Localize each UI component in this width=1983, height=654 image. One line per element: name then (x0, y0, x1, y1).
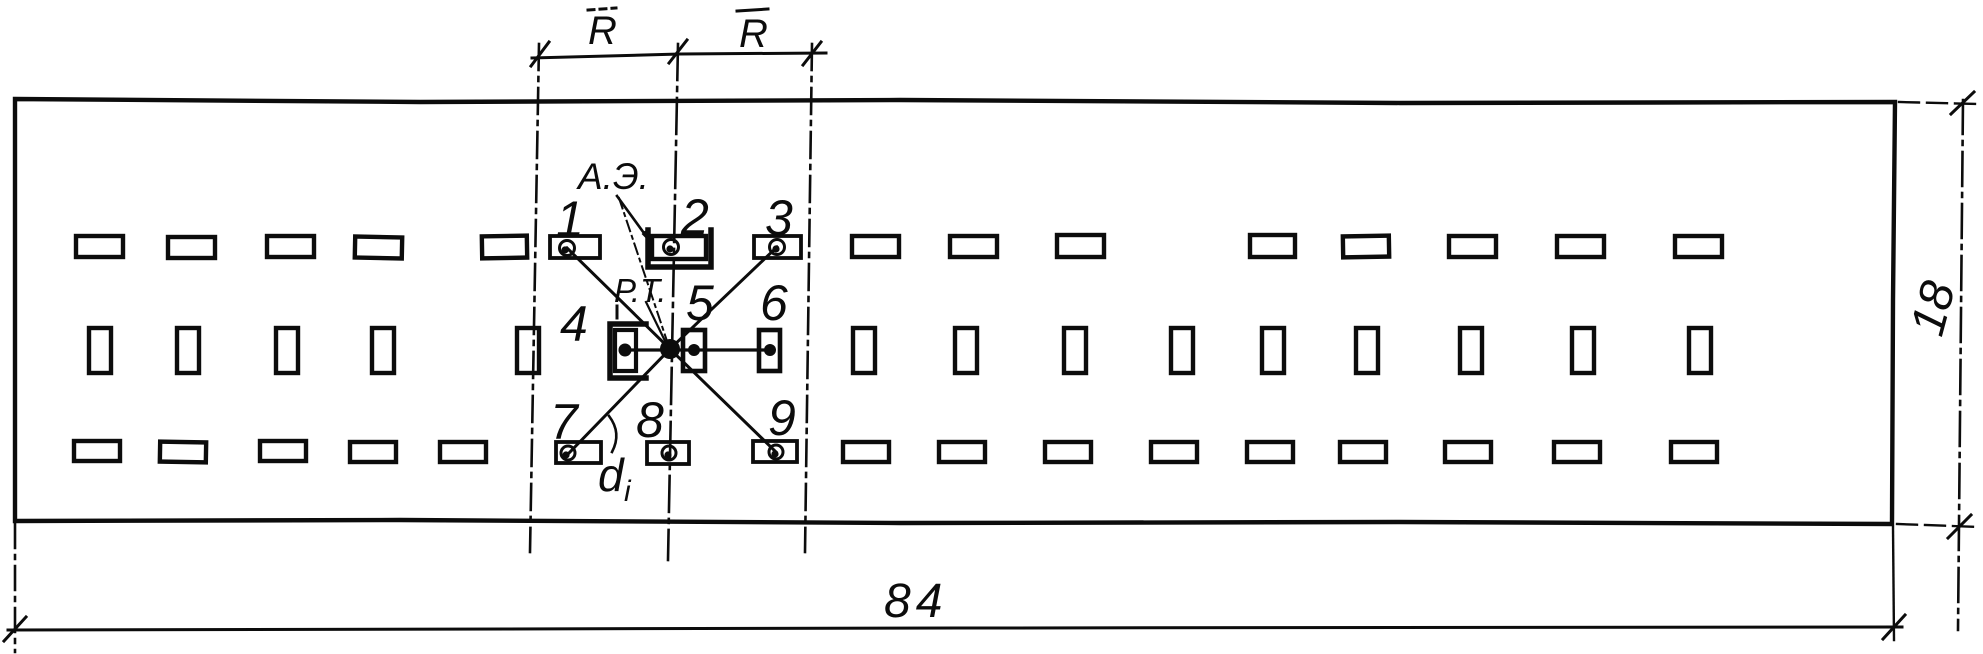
top rect t6 (852, 236, 899, 257)
bottom rect b14 (1671, 442, 1717, 462)
top rect t7 (950, 236, 997, 257)
point 4 rect (615, 330, 636, 371)
top rect t2 (168, 237, 215, 258)
mid rect m14 (1689, 328, 1711, 373)
central point P.T. (660, 339, 680, 359)
svg-text:R: R (739, 12, 768, 56)
svg-text:R: R (588, 9, 617, 53)
svg-text:9: 9 (768, 390, 796, 446)
top rect t3 (267, 236, 314, 257)
svg-text:7: 7 (550, 394, 580, 450)
outer plan border (15, 99, 1895, 524)
filled dot point 4 (619, 344, 632, 357)
bottom rect b2 (160, 442, 206, 463)
svg-text:3: 3 (765, 190, 793, 246)
bottom rect point 9 (753, 441, 797, 462)
bottom rect b11 (1340, 442, 1386, 462)
radial line to point 9 (671, 350, 776, 452)
top rect t11 (1449, 236, 1496, 257)
radial line to point 3 (671, 247, 777, 348)
top rect t10 (1343, 236, 1389, 258)
top rect t13 (1675, 236, 1722, 257)
small dash above point 4 (616, 306, 619, 318)
bottom rect b8 (1045, 442, 1091, 462)
svg-text:Р.Т.: Р.Т. (614, 272, 666, 309)
top rect t8 (1057, 235, 1104, 257)
axis line right (dash-dot) (805, 44, 812, 552)
bottom rect b1 (74, 441, 120, 461)
top rect point 1 (550, 236, 600, 258)
mid rect m11 (1356, 328, 1378, 373)
bottom rect b5 (440, 442, 486, 462)
bottom dim tick left (4, 617, 26, 641)
bottom rect b3 (260, 441, 306, 461)
right border extension down to 84 line (1893, 527, 1894, 640)
bottom dim tick right (1883, 615, 1905, 639)
marker circle point 3 (770, 240, 785, 255)
axis line center (dash-dot) (668, 44, 678, 560)
marker circle point 8 (662, 446, 676, 460)
top dim tick right (803, 42, 821, 65)
radial line to point 7 (569, 350, 669, 453)
mid rect m7 (955, 328, 977, 373)
left extension line (dash-dot) below plan (14, 524, 17, 652)
mid rect m4 (372, 328, 394, 373)
marker circle point 2 (664, 240, 679, 255)
mid rect m6 (853, 328, 875, 373)
mid rect m9 (1171, 328, 1193, 373)
axis line left (dash-dot) (530, 44, 539, 552)
bottom rect b6 (843, 442, 889, 462)
overbar of right R (737, 9, 768, 11)
svg-text:d: d (598, 449, 625, 501)
bottom dimension line 84 (8, 627, 1902, 630)
point 4 outer bracket (610, 324, 646, 378)
right dimension 18: bottom extension (1897, 524, 1980, 527)
mid rect m10 (1262, 328, 1284, 373)
marker circle point 9 (769, 445, 783, 459)
top rect point 3 (754, 236, 801, 258)
svg-text:84: 84 (884, 575, 947, 628)
marker dot point 9 (771, 450, 778, 457)
svg-text:2: 2 (680, 189, 709, 245)
svg-text:5: 5 (686, 275, 714, 331)
point 6 rect (759, 330, 780, 371)
top rect t9 (1250, 235, 1295, 257)
marker dot point 7 (562, 451, 569, 458)
overbar of left R (dotted) (588, 8, 616, 10)
bottom rect b10 (1247, 442, 1293, 462)
top rect t5 (482, 236, 527, 259)
point 2 outer bracket (648, 230, 711, 267)
top rect t4 (355, 237, 402, 259)
bottom rect b7 (939, 442, 985, 462)
bottom rect point 7 (556, 442, 601, 463)
point 2 rect (with bold open frame) (652, 236, 706, 259)
svg-text:4: 4 (560, 296, 588, 352)
marker circle point 7 (561, 446, 575, 460)
mid rect m5 (517, 328, 539, 373)
bottom rect b12 (1445, 442, 1491, 462)
top dim tick middle (669, 40, 687, 63)
mid rect m13 (1572, 328, 1594, 373)
filled dot point 6 (764, 344, 776, 356)
arrowhead (643, 232, 649, 240)
mid rect m3 (276, 328, 298, 373)
bottom rect b13 (1554, 442, 1600, 462)
bottom rect b4 (350, 442, 396, 462)
mid rect m12 (1460, 328, 1482, 373)
top dim tick left (531, 42, 549, 66)
bottom rect point 8 (647, 442, 689, 464)
radial line to point 1 (567, 248, 669, 348)
leader from A.E. label to rect 2 (arrow) (617, 196, 649, 240)
marker dot point 2 (666, 245, 673, 252)
svg-text:8: 8 (636, 392, 664, 448)
mid rect m1 (89, 328, 111, 373)
dash-dot leader from A.E. to center (619, 198, 668, 344)
point 5 rect (683, 330, 705, 371)
marker dot point 1 (561, 246, 568, 253)
top rect t1 (76, 236, 123, 257)
svg-text:1: 1 (556, 191, 584, 247)
bottom rect b9 (1151, 442, 1197, 462)
marker dot point 8 (664, 451, 671, 458)
right dim tick bottom (1948, 515, 1971, 538)
top dimension line R R (532, 53, 826, 58)
marker circle point 1 (560, 241, 575, 256)
marker dot point 3 (772, 245, 779, 252)
svg-text:6: 6 (760, 275, 788, 331)
mid rect m8 (1064, 328, 1086, 373)
mid rect m2 (177, 328, 199, 373)
filled dot point 5 (688, 344, 700, 356)
right dimension 18: vertical line (1958, 100, 1963, 630)
right dim tick top (1951, 92, 1974, 114)
right dimension 18: top extension (1899, 102, 1978, 104)
leader from P.T. to center (646, 302, 667, 345)
horizontal line through points 4,5,6 (625, 348, 770, 351)
d_i arc (609, 416, 616, 452)
svg-text:А.Э.: А.Э. (576, 156, 649, 197)
top rect t12 (1557, 236, 1604, 257)
